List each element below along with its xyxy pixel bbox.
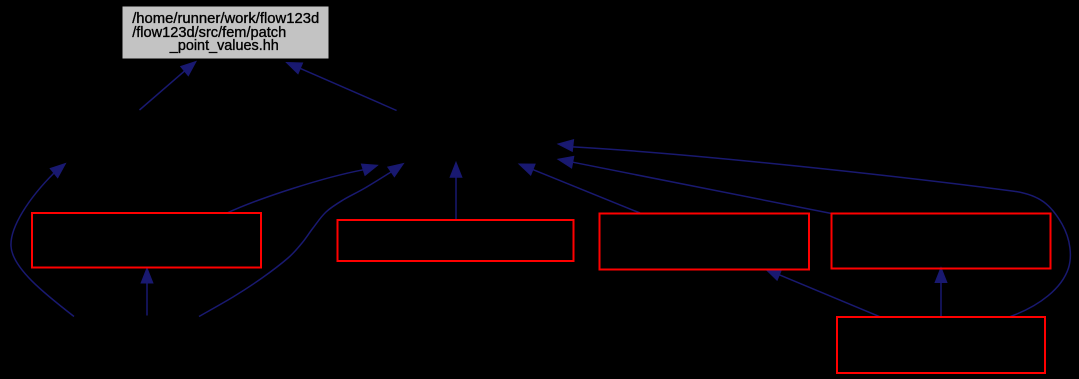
node box4 (red, truncated) bbox=[832, 214, 1051, 269]
edge box1 to invisible-mid-node bbox=[227, 164, 378, 213]
node patch_point_values.hh (grey) bbox=[122, 6, 329, 59]
edge invisible-left-node to patch_point_values.hh bbox=[140, 62, 197, 111]
node box1 (red, truncated) bbox=[32, 213, 261, 268]
edge box4 to invisible-mid-node bbox=[558, 156, 832, 213]
edge invisible-bottom-node to invisible-mid-node bbox=[199, 164, 404, 317]
edge box5 to box4 bbox=[935, 268, 947, 317]
edge invisible-bottom-node to box1 bbox=[141, 268, 153, 316]
node box3 (red, truncated) bbox=[600, 214, 810, 270]
edge invisible-bottom-node to invisible-left-node bbox=[11, 164, 74, 317]
edge box5 to invisible-mid-node (long curve) bbox=[558, 140, 1070, 317]
edge box5 to box3 bbox=[766, 269, 881, 317]
node box2 (red, truncated) bbox=[338, 220, 574, 261]
svg-text:_point_values.hh: _point_values.hh bbox=[169, 38, 279, 54]
edge box3 to invisible-mid-node bbox=[519, 164, 640, 213]
edge invisible-mid-node to patch_point_values.hh bbox=[287, 63, 397, 111]
edge box2 to invisible-mid-node bbox=[450, 162, 462, 220]
node box5 (red, truncated) bbox=[837, 317, 1045, 373]
